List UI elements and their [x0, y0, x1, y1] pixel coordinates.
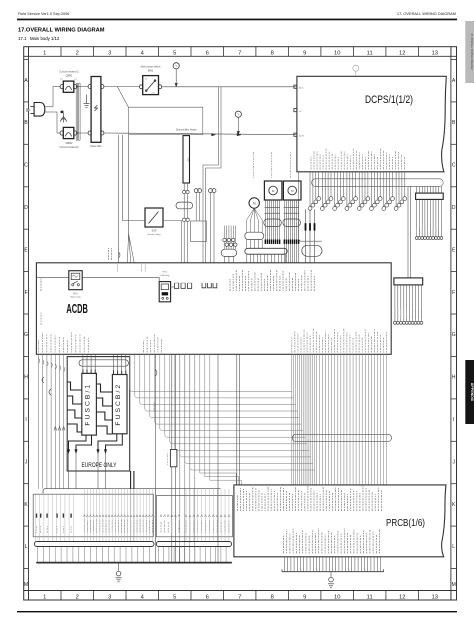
ACDB bottom pin labels group 3 — [291, 329, 387, 353]
sub motor MG/2 label — [289, 176, 292, 178]
svg-text:D: D — [24, 205, 28, 211]
terminal T1 with stem — [173, 63, 179, 87]
wire plug to CBR1 — [45, 87, 61, 107]
noise filter NF — [88, 77, 104, 148]
svg-text:G: G — [24, 332, 28, 338]
svg-text:CBR1: CBR1 — [66, 74, 73, 78]
sub motor MG/2 — [283, 181, 301, 200]
svg-text:M: M — [253, 202, 256, 206]
svg-text:SW1: SW1 — [148, 68, 154, 72]
svg-text:EUROPE ONLY: EUROPE ONLY — [82, 462, 117, 469]
long pill connector across bundle — [292, 434, 391, 441]
main power switch SW1 — [140, 65, 162, 94]
step wires between FUSCB blocks — [96, 384, 112, 434]
ACDB live label — [40, 289, 43, 291]
svg-text:3: 3 — [108, 51, 111, 57]
svg-text:C: C — [24, 163, 28, 169]
fuse block FUSCB/1 — [82, 373, 97, 435]
svg-text:(heater relay): (heater relay) — [147, 233, 160, 236]
PRCB bottom pin labels — [283, 529, 380, 554]
solid state relay SSR — [122, 208, 181, 263]
power supply unit DCPS — [297, 76, 446, 172]
svg-text:M: M — [452, 582, 456, 588]
connector bar J2 — [156, 542, 231, 547]
wire SW1 to DCPS AC/L — [162, 86, 297, 88]
fan motor FM/1 label — [252, 177, 255, 178]
power plug PLUG — [27, 103, 45, 117]
svg-text:F: F — [25, 290, 28, 296]
PRCB top pin labels — [237, 486, 382, 511]
svg-text:Dehumidifier heater: Dehumidifier heater — [176, 129, 197, 132]
svg-text:1: 1 — [43, 51, 46, 57]
rectangular wire loop left of motors — [191, 221, 207, 242]
svg-text:17.1 Main body 1/12: 17.1 Main body 1/12 — [18, 36, 60, 41]
bottom pin labels group A — [36, 514, 72, 534]
drop wires to connector bars — [36, 489, 229, 542]
svg-text:12: 12 — [399, 51, 405, 57]
inline connector box — [167, 354, 177, 562]
CN-B wires to terminal row — [393, 285, 423, 324]
svg-text:I: I — [453, 417, 454, 423]
header rule — [17, 19, 457, 21]
heater return wire — [154, 354, 157, 562]
fan motor FM/1 — [249, 198, 259, 208]
ground symbol at noise filter — [84, 95, 90, 108]
terminal T2 with stem — [235, 111, 241, 135]
connector comb under MG/2 — [283, 200, 301, 263]
svg-text:P1: P1 — [74, 79, 76, 81]
wire NF to DCPS AC/N — [104, 133, 297, 135]
circuit breaker CBR2 — [59, 127, 78, 148]
svg-text:10: 10 — [334, 595, 340, 601]
svg-text:AC/N: AC/N — [299, 134, 304, 137]
svg-text:5: 5 — [173, 51, 176, 57]
wire pair ACDB to PRCB left — [237, 354, 240, 485]
bottom pin labels group C — [160, 515, 180, 533]
svg-text:M: M — [24, 582, 28, 588]
EUROPE ONLY enclosure — [67, 357, 130, 471]
PRCB ground wires — [282, 557, 384, 572]
wide connector bar under motors — [245, 248, 287, 262]
svg-text:2: 2 — [76, 51, 79, 57]
svg-text:APPENDIX: APPENDIX — [470, 383, 474, 402]
circuit breaker CBR1 — [59, 71, 78, 93]
wire CBR2 to NF — [77, 132, 88, 134]
ACDB bottom pin labels group 2 — [143, 335, 162, 353]
svg-text:1: 1 — [43, 595, 46, 601]
connector comb group right of RY2 — [171, 283, 192, 289]
connector bar J1 — [34, 542, 154, 547]
svg-text:G: G — [452, 332, 456, 338]
ACDB bottom pin labels group 1 — [38, 333, 88, 353]
svg-text:FUSCB/2: FUSCB/2 — [115, 383, 122, 426]
DCPS pin FG — [294, 109, 302, 113]
svg-text:13: 13 — [431, 595, 437, 601]
wires bars to bottom bus — [38, 547, 227, 563]
svg-text:DH: DH — [186, 158, 188, 162]
fan motor wire fan-out — [245, 208, 264, 248]
svg-text:2: 2 — [76, 595, 79, 601]
bottom bus wire — [36, 562, 232, 564]
svg-text:H: H — [452, 375, 456, 381]
wire RY1 to RY2 — [82, 276, 159, 278]
svg-text:11: 11 — [367, 51, 373, 57]
bottom pin labels group B — [83, 515, 156, 533]
connector blob on plug wire — [61, 111, 64, 113]
wire NF to SW1 — [104, 86, 140, 88]
DCPS output wires and connector terminals — [308, 172, 407, 211]
terminal circle pair 2 — [209, 189, 217, 263]
AC harness trio from DCPS to ACDB — [302, 209, 322, 262]
AC drive board ACDB — [36, 263, 391, 355]
svg-text:CBR2: CBR2 — [66, 141, 73, 145]
fuse block FUSCB/2 — [112, 375, 127, 434]
wires ACDB to FUSCB/2 — [114, 354, 126, 374]
inline connector arrows on AC/N wire — [212, 133, 242, 136]
svg-text:10: 10 — [334, 51, 340, 57]
FUSCB/2 output wires — [97, 434, 123, 489]
main motor MG/1 — [264, 181, 282, 200]
svg-text:7: 7 — [238, 595, 241, 601]
svg-text:6: 6 — [206, 595, 209, 601]
svg-text:5: 5 — [173, 595, 176, 601]
wires ACDB to FUSCB/1 — [83, 354, 95, 373]
staircase wire bundle to PRCB — [130, 354, 315, 562]
hairpin wire loops CBR1 to CBR2 — [76, 83, 80, 141]
svg-text:3: 3 — [108, 595, 111, 601]
svg-text:FUSCB/1: FUSCB/1 — [84, 383, 91, 426]
svg-text:17. OVERALL WIRING DIAGRAM: 17. OVERALL WIRING DIAGRAM — [470, 33, 473, 69]
svg-text:17. OVERALL WIRING DIAGRAM: 17. OVERALL WIRING DIAGRAM — [397, 11, 456, 16]
terminal cluster circles — [221, 226, 237, 263]
connector pill inside EUROPE box top — [79, 360, 129, 366]
relay RY1 — [69, 271, 82, 299]
wire plug to CBR2 — [45, 112, 61, 133]
svg-text:L: L — [452, 544, 455, 550]
svg-text:P2: P2 — [145, 78, 147, 80]
wire ACDB edge to RY1 — [36, 276, 68, 278]
heater output connectors — [176, 183, 193, 263]
svg-text:Field Service Ver1.0 Sep.2006: Field Service Ver1.0 Sep.2006 — [18, 12, 69, 16]
black APPENDIX tab — [465, 360, 474, 424]
wires into ACDB top — [108, 135, 134, 263]
earth symbol under PRCB — [328, 572, 334, 588]
DCPS pin AC/L — [294, 85, 304, 89]
wire branch to heater loop — [117, 87, 128, 107]
bend wires into PRCB top left — [200, 354, 242, 485]
step wires left of FUSCB/1 — [67, 382, 82, 432]
svg-text:11: 11 — [367, 595, 373, 601]
relay RY2 — [159, 272, 170, 302]
svg-text:Main relay: Main relay — [70, 296, 81, 299]
svg-text:7: 7 — [238, 51, 241, 57]
svg-text:I: I — [25, 417, 26, 423]
earth symbol on bottom bus — [116, 564, 122, 582]
terminal circle pair 1 — [194, 189, 201, 221]
wire pair CN-A to CN-B — [408, 186, 410, 278]
connector bar CN-A — [416, 186, 444, 199]
svg-text:9: 9 — [303, 51, 306, 57]
grey side tab — [465, 21, 474, 83]
svg-text:PRCB(1/6): PRCB(1/6) — [386, 518, 425, 529]
svg-text:13: 13 — [431, 51, 437, 57]
bottom pin labels group D — [185, 515, 230, 533]
svg-text:8: 8 — [271, 595, 274, 601]
svg-text:12: 12 — [399, 595, 405, 601]
wire CBR1 to NF — [77, 86, 88, 88]
ACDB top pin labels — [117, 265, 314, 292]
DCPS auxiliary pill bus — [312, 179, 444, 187]
connector bar CN-B — [394, 278, 423, 285]
DCPS pin AC/N — [294, 133, 304, 137]
DCPS corner return wire — [299, 172, 322, 241]
svg-text:Sub relay: Sub relay — [161, 274, 171, 277]
svg-text:6: 6 — [206, 51, 209, 57]
grid row ticks and letters — [24, 60, 457, 588]
bold wire pair from EUROPE area — [131, 471, 134, 542]
svg-text:F: F — [452, 290, 455, 296]
svg-text:(Circuit breaker/1): (Circuit breaker/1) — [59, 71, 78, 74]
svg-text:17.OVERALL WIRING DIAGRAM: 17.OVERALL WIRING DIAGRAM — [18, 28, 105, 34]
svg-text:P2: P2 — [60, 79, 62, 81]
main motor MG/1 label — [270, 177, 273, 178]
connector comb under MG/1 — [264, 200, 282, 244]
horizontal collector wire — [43, 489, 221, 494]
svg-text:ACDB: ACDB — [66, 301, 88, 316]
DCPS bottom pin labels — [311, 149, 405, 170]
left harness wires from ACDB — [39, 354, 65, 488]
svg-text:D: D — [452, 205, 456, 211]
ground symbol at plug — [60, 113, 67, 123]
grid column ticks and numbers — [29, 47, 451, 601]
svg-text:DCPS/1(1/2): DCPS/1(1/2) — [365, 94, 413, 106]
dehumidifier heater DH — [176, 129, 197, 184]
svg-text:L: L — [25, 544, 28, 550]
svg-text:H: H — [24, 375, 28, 381]
FUSCB/1 output wires — [67, 435, 91, 489]
svg-text:Noise filter: Noise filter — [90, 145, 102, 148]
svg-text:SSR: SSR — [152, 231, 157, 233]
dehumidifier heater wire loop — [129, 107, 203, 134]
inline connector loops on left wires — [42, 377, 65, 431]
printed circuit board PRCB — [234, 485, 446, 557]
footer rule — [17, 611, 457, 612]
svg-text:(Circuit breaker/2): (Circuit breaker/2) — [59, 146, 78, 149]
vertical wire pair to ACDB — [203, 87, 221, 263]
svg-text:8: 8 — [271, 51, 274, 57]
svg-text:P1: P1 — [153, 92, 155, 94]
CN-A wires to terminal row — [415, 199, 442, 239]
svg-text:C: C — [452, 163, 456, 169]
connector outline boxes bottom left — [33, 494, 232, 537]
svg-text:RY1: RY1 — [73, 293, 78, 295]
connector comb group 2 — [202, 283, 217, 288]
svg-text:Main power switch: Main power switch — [141, 65, 161, 68]
svg-text:9: 9 — [303, 595, 306, 601]
faint terminal above DCPS — [353, 65, 359, 76]
centre bundle from ACDB to PRCB — [292, 354, 387, 485]
diagram border frame — [24, 47, 457, 600]
long return wire — [217, 354, 219, 562]
